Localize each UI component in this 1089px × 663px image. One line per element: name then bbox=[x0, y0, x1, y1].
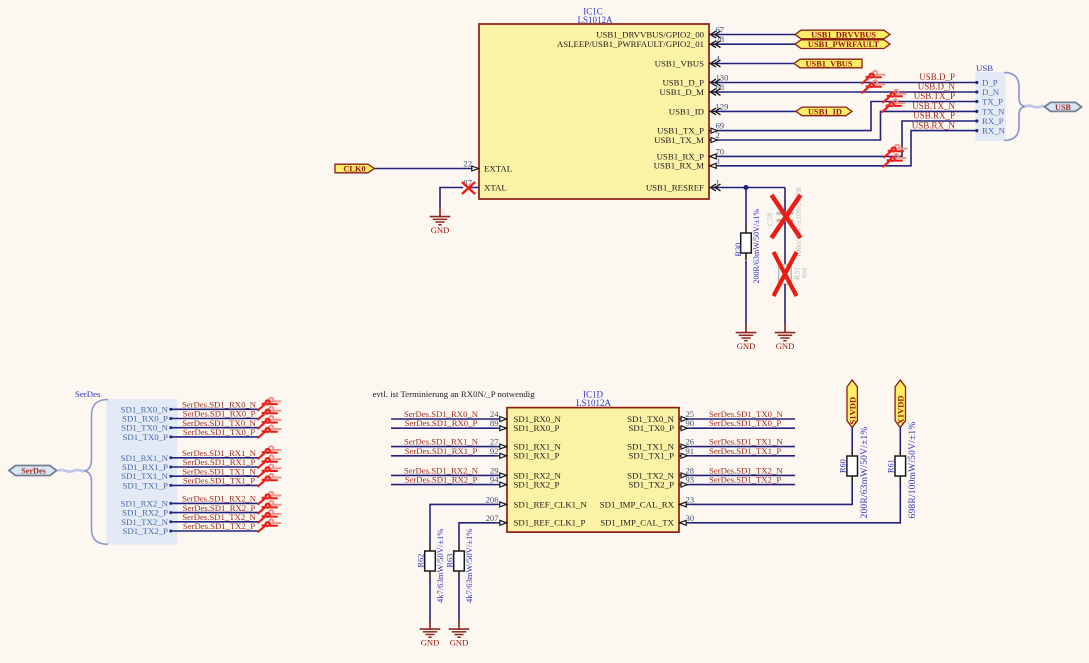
wire S1VDD to R60 bbox=[851, 428, 853, 449]
svg-text:4k7/63mW/50V/±1%: 4k7/63mW/50V/±1% bbox=[435, 529, 445, 603]
wire net SerDes.SD1_RX0_N into pin 24 bbox=[391, 418, 495, 420]
wire R62 to GND bbox=[429, 579, 431, 621]
length-match marker on USB.RX_P bbox=[884, 145, 908, 158]
wire net SerDes.SD1_RX0_N bbox=[171, 408, 260, 410]
svg-text:CLK0: CLK0 bbox=[343, 165, 365, 174]
svg-text:ASLEEP/USB1_PWRFAULT/GPIO2_01: ASLEEP/USB1_PWRFAULT/GPIO2_01 bbox=[557, 39, 704, 49]
IC1C pin 28 ASLEEP/USB1_PWRFAULT/GPIO2_01 bbox=[709, 34, 724, 47]
svg-text:R62: R62 bbox=[416, 554, 425, 568]
IC1D pin 206 SD1_REF_CLK1_N bbox=[486, 494, 507, 507]
wire R30 to GND bbox=[745, 261, 747, 324]
svg-text:4: 4 bbox=[716, 54, 721, 64]
length-match marker on SerDes.SD1_RX2_N bbox=[258, 492, 282, 505]
bus USB member RX_P bbox=[975, 119, 978, 122]
wire pin to net label USB1_ID bbox=[721, 110, 796, 112]
length-match marker on SerDes.SD1_RX2_P bbox=[258, 501, 282, 514]
svg-text:USB1_RX_M: USB1_RX_M bbox=[654, 161, 705, 171]
resistor R62 bbox=[425, 544, 436, 579]
svg-text:LS1012A: LS1012A bbox=[577, 15, 613, 25]
svg-text:RX_N: RX_N bbox=[982, 126, 1006, 136]
length-match marker on SerDes.SD1_RX0_P bbox=[258, 407, 282, 420]
bus SerDes brace bbox=[83, 400, 108, 545]
bus USB body bbox=[976, 72, 1006, 141]
IC1D pin 24 SD1_RX0_N bbox=[490, 409, 507, 422]
svg-text:XTAL: XTAL bbox=[484, 182, 507, 192]
IC1D pin 92 SD1_RX1_P bbox=[490, 446, 507, 459]
svg-text:SD1_TX0_P: SD1_TX0_P bbox=[629, 423, 675, 433]
IC1D pin 27 SD1_RX1_N bbox=[490, 437, 507, 450]
svg-text:USB1_D_M: USB1_D_M bbox=[660, 87, 705, 97]
svg-text:USB.TX_P: USB.TX_P bbox=[914, 91, 955, 101]
IC1D pin 207 SD1_REF_CLK1_P bbox=[486, 513, 507, 526]
length-match marker on USB.RX_N bbox=[883, 154, 907, 167]
svg-text:207: 207 bbox=[486, 513, 500, 523]
bus USB member RX_N bbox=[975, 129, 978, 132]
svg-text:28: 28 bbox=[716, 34, 725, 44]
svg-text:SerDes: SerDes bbox=[21, 467, 46, 476]
IC1D pin 90 SD1_TX0_P bbox=[679, 418, 694, 431]
svg-text:USB1_DRVVBUS/GPIO2_00: USB1_DRVVBUS/GPIO2_00 bbox=[596, 29, 704, 39]
wire net SerDes.SD1_TX2_N bbox=[171, 521, 260, 523]
ground symbol GND below R62 bbox=[420, 620, 441, 648]
IC1C pin 130 USB1_D_P bbox=[709, 73, 728, 86]
ground symbol GND below R30 bbox=[736, 323, 757, 351]
IC1D pin 26 SD1_TX1_N bbox=[679, 437, 695, 450]
wire R60 to IC1D pin bbox=[691, 484, 852, 505]
svg-text:R30: R30 bbox=[734, 243, 743, 257]
wire net SerDes.SD1_RX1_P into pin 92 bbox=[391, 455, 495, 457]
svg-text:3: 3 bbox=[716, 156, 720, 166]
wire R31 to GND bbox=[784, 284, 786, 324]
svg-text:USB1_RESREF: USB1_RESREF bbox=[646, 182, 704, 192]
wire net SerDes.SD1_TX0_P bbox=[171, 436, 260, 438]
wire junction down to resistor R30 bbox=[745, 188, 747, 226]
do-not-populate cross over C78 bbox=[772, 195, 801, 238]
svg-text:1: 1 bbox=[716, 178, 720, 188]
wire USB1_RESREF pin 1 to R30 and C78 bbox=[721, 187, 785, 189]
svg-text:SerDes.SD1_TX1_P: SerDes.SD1_TX1_P bbox=[709, 446, 781, 456]
net label USB1_DRVVBUS bbox=[795, 30, 890, 39]
svg-text:D_P: D_P bbox=[982, 78, 998, 88]
svg-text:SerDes: SerDes bbox=[75, 389, 101, 399]
wire net SerDes.SD1_TX0_N from pin 25 bbox=[691, 418, 795, 420]
net label USB1_VBUS bbox=[794, 59, 862, 68]
no-connect cross on XTAL pin bbox=[462, 182, 475, 194]
ground symbol GND below R31/C78 bbox=[775, 323, 796, 351]
length-match marker on SerDes.SD1_RX1_P bbox=[258, 455, 282, 468]
wire net SerDes.SD1_TX1_N from pin 26 bbox=[691, 446, 795, 448]
wire USB1_D_M to bus USB.D_N bbox=[721, 91, 977, 93]
capacitor C78 (not populated, grey) bbox=[777, 212, 794, 215]
svg-text:SD1_TX1_P: SD1_TX1_P bbox=[629, 451, 675, 461]
length-match marker on USB.TX_P bbox=[883, 90, 907, 103]
wire USB1_TX_M to bus USB.TX_N bbox=[721, 111, 977, 140]
svg-text:LS1012A: LS1012A bbox=[576, 398, 612, 408]
svg-text:D_N: D_N bbox=[982, 87, 1000, 97]
svg-text:SerDes.SD1_RX2_P: SerDes.SD1_RX2_P bbox=[405, 475, 478, 485]
svg-text:S1VDD: S1VDD bbox=[848, 397, 858, 425]
svg-text:X1VDD: X1VDD bbox=[896, 395, 906, 424]
wire pin to net label USB1_DRVVBUS bbox=[721, 34, 795, 36]
IC1D pin 30 SD1_IMP_CAL_TX bbox=[679, 513, 694, 526]
wire net SerDes.SD1_RX2_N into pin 29 bbox=[391, 474, 495, 476]
svg-text:SerDes.SD1_TX1_P: SerDes.SD1_TX1_P bbox=[183, 476, 255, 486]
svg-text:SerDes.SD1_TX2_P: SerDes.SD1_TX2_P bbox=[183, 521, 255, 531]
svg-text:USB1_PWRFAULT: USB1_PWRFAULT bbox=[808, 40, 880, 49]
wire net SerDes.SD1_TX2_N from pin 28 bbox=[691, 474, 795, 476]
IC1C pin 2 USB1_TX_M bbox=[709, 130, 721, 143]
svg-text:4k7/63mW/50V/±1%: 4k7/63mW/50V/±1% bbox=[464, 529, 474, 603]
length-match marker on SerDes.SD1_TX0_N bbox=[258, 416, 282, 429]
svg-text:R63: R63 bbox=[445, 554, 454, 568]
svg-text:130: 130 bbox=[716, 73, 729, 83]
wire net SerDes.SD1_TX1_N bbox=[171, 475, 260, 477]
IC1C pin 3 USB1_RX_M bbox=[709, 156, 721, 169]
net label USB1_PWRFAULT bbox=[795, 40, 890, 49]
wire down to capacitor C78 bbox=[784, 188, 786, 212]
length-match marker on SerDes.SD1_TX0_P bbox=[258, 425, 282, 438]
wire IC1D pin to R63 bbox=[459, 523, 495, 544]
svg-text:USB1_VBUS: USB1_VBUS bbox=[805, 59, 852, 68]
bus USB squiggle link bbox=[1025, 106, 1045, 108]
IC1C pin 69 USB1_TX_P bbox=[709, 121, 724, 134]
resistor R60 bbox=[847, 449, 858, 484]
length-match marker on SerDes.SD1_RX1_N bbox=[258, 446, 282, 459]
IC1C pin 87 XTAL bbox=[463, 178, 479, 188]
svg-text:SD1_TX1_P: SD1_TX1_P bbox=[123, 480, 169, 490]
svg-text:SD1_IMP_CAL_RX: SD1_IMP_CAL_RX bbox=[600, 499, 675, 509]
IC1C pin 22 EXTAL bbox=[463, 159, 479, 172]
length-match marker on SerDes.SD1_TX2_P bbox=[258, 519, 282, 532]
svg-text:SD1_TX2_P: SD1_TX2_P bbox=[629, 480, 675, 490]
svg-text:SD1_RX2_P: SD1_RX2_P bbox=[514, 480, 560, 490]
svg-text:SD1_REF_CLK1_P: SD1_REF_CLK1_P bbox=[514, 518, 586, 528]
bus SerDes body bbox=[107, 399, 178, 545]
svg-text:30: 30 bbox=[686, 513, 695, 523]
supply flag S1VDD bbox=[847, 380, 857, 428]
svg-text:SD1_IMP_CAL_TX: SD1_IMP_CAL_TX bbox=[600, 518, 674, 528]
wire R63 to GND bbox=[458, 579, 460, 621]
wire IC1D pin to R62 bbox=[430, 504, 495, 543]
net label USB1_ID bbox=[796, 107, 852, 116]
svg-text:129: 129 bbox=[716, 101, 729, 111]
IC1D pin 91 SD1_TX1_P bbox=[679, 446, 694, 459]
wire net SerDes.SD1_RX2_P into pin 94 bbox=[391, 484, 495, 486]
svg-text:EXTAL: EXTAL bbox=[484, 163, 512, 173]
svg-text:R61: R61 bbox=[887, 459, 896, 473]
wire net SerDes.SD1_RX0_P into pin 89 bbox=[391, 427, 495, 429]
svg-text:USB1_ID: USB1_ID bbox=[669, 106, 704, 116]
svg-text:SD1_RX1_P: SD1_RX1_P bbox=[514, 451, 560, 461]
length-match marker on SerDes.SD1_TX2_N bbox=[258, 510, 282, 523]
svg-text:C78: C78 bbox=[766, 213, 775, 226]
svg-text:SerDes.SD1_TX2_P: SerDes.SD1_TX2_P bbox=[709, 475, 781, 485]
wire net SerDes.SD1_TX1_P from pin 91 bbox=[691, 455, 795, 457]
do-not-populate cross over R31 bbox=[774, 252, 797, 296]
wire net SerDes.SD1_RX1_P bbox=[171, 466, 260, 468]
svg-text:22: 22 bbox=[463, 159, 472, 169]
bus USB member D_P bbox=[975, 81, 978, 84]
svg-text:USB.D_N: USB.D_N bbox=[918, 82, 956, 92]
wire net SerDes.SD1_RX1_N bbox=[171, 457, 260, 459]
IC U1 part D (IC1D LS1012A) body bbox=[507, 408, 679, 532]
bus USB member TX_P bbox=[975, 100, 978, 103]
supply flag X1VDD bbox=[895, 380, 905, 428]
IC1D pin 93 SD1_TX2_P bbox=[679, 475, 694, 488]
svg-text:200R/63mW/50V/±1%: 200R/63mW/50V/±1% bbox=[752, 209, 761, 284]
bus USB brace bbox=[1004, 73, 1027, 141]
bus SerDes squiggle link bbox=[58, 470, 85, 472]
IC1D pin 29 SD1_RX2_N bbox=[490, 465, 507, 478]
wire pin to net label USB1_PWRFAULT bbox=[721, 43, 795, 45]
junction node on RESREF net bbox=[744, 185, 749, 190]
IC1C pin 67 USB1_DRVVBUS/GPIO2_00 bbox=[709, 25, 725, 38]
svg-text:SerDes.SD1_TX0_P: SerDes.SD1_TX0_P bbox=[709, 418, 781, 428]
bus label USB hexagon bbox=[1045, 102, 1082, 111]
svg-text:USB1_VBUS: USB1_VBUS bbox=[655, 58, 704, 68]
wire net SerDes.SD1_TX1_P bbox=[171, 484, 260, 486]
svg-text:USB.D_P: USB.D_P bbox=[919, 72, 955, 82]
IC1C pin 68 USB1_D_M bbox=[709, 82, 724, 95]
bus label SerDes hexagon bbox=[9, 466, 57, 476]
IC1D pin 94 SD1_RX2_P bbox=[490, 475, 507, 488]
wire pin to net label USB1_VBUS bbox=[721, 63, 794, 65]
length-match marker on SerDes.SD1_TX1_P bbox=[258, 474, 282, 487]
svg-text:USB1_ID: USB1_ID bbox=[808, 107, 842, 116]
svg-text:SD1_REF_CLK1_N: SD1_REF_CLK1_N bbox=[514, 499, 588, 509]
IC1D pin 23 SD1_IMP_CAL_RX bbox=[679, 494, 694, 507]
wire net SerDes.SD1_TX2_P from pin 93 bbox=[691, 484, 795, 486]
svg-text:TX_P: TX_P bbox=[982, 97, 1003, 107]
svg-text:evtl. ist Terminierung an RX0N: evtl. ist Terminierung an RX0N/_P notwen… bbox=[373, 389, 536, 399]
svg-text:23: 23 bbox=[686, 494, 695, 504]
wire USB1_RX_M to bus USB.RX_N bbox=[721, 131, 977, 166]
svg-text:2: 2 bbox=[716, 130, 720, 140]
IC1D pin 89 SD1_RX0_P bbox=[490, 418, 507, 431]
svg-text:USB: USB bbox=[1055, 103, 1071, 112]
bus USB member D_N bbox=[975, 90, 978, 93]
net label CLK0 bbox=[335, 164, 375, 173]
length-match marker on USB.D_P bbox=[862, 71, 886, 84]
wire X1VDD to R61 bbox=[899, 428, 901, 449]
wire net SerDes.SD1_TX0_P from pin 90 bbox=[691, 427, 795, 429]
svg-text:SerDes.SD1_RX0_P: SerDes.SD1_RX0_P bbox=[405, 418, 478, 428]
IC1D pin 28 SD1_TX2_N bbox=[679, 465, 694, 478]
svg-text:68: 68 bbox=[716, 82, 725, 92]
svg-text:698R/100mW/50V/±1%: 698R/100mW/50V/±1% bbox=[908, 422, 918, 519]
wire R61 to IC1D pin bbox=[691, 484, 900, 523]
svg-text:TX_N: TX_N bbox=[982, 106, 1005, 116]
svg-text:SD1_RX0_P: SD1_RX0_P bbox=[514, 423, 560, 433]
svg-text:USB1_D_P: USB1_D_P bbox=[662, 77, 704, 87]
svg-text:SerDes.SD1_RX1_P: SerDes.SD1_RX1_P bbox=[405, 446, 478, 456]
wire net SerDes.SD1_RX2_N bbox=[171, 502, 260, 504]
IC1C pin 129 USB1_ID bbox=[709, 101, 728, 114]
wire net SerDes.SD1_TX2_P bbox=[171, 530, 260, 532]
wire net SerDes.SD1_RX2_P bbox=[171, 512, 260, 514]
op-amp: none; IC U1 (IC1C LS1012A) body bbox=[479, 24, 709, 199]
svg-text:206: 206 bbox=[486, 494, 500, 504]
ground symbol GND below R63 bbox=[449, 620, 470, 648]
wire XTAL pin 87 to GND bbox=[440, 188, 463, 208]
resistor R30 bbox=[741, 226, 752, 261]
length-match marker on SerDes.SD1_RX0_N bbox=[258, 398, 282, 411]
svg-text:200R/63mW/50V/±1%: 200R/63mW/50V/±1% bbox=[860, 427, 870, 519]
wire net SerDes.SD1_RX0_P bbox=[171, 418, 260, 420]
svg-text:USB1_DRVVBUS: USB1_DRVVBUS bbox=[811, 30, 876, 39]
resistor R31 (not populated, grey) bbox=[779, 265, 792, 285]
bus USB member TX_N bbox=[975, 110, 978, 113]
IC1D pin 25 SD1_TX0_N bbox=[679, 409, 694, 422]
wire USB1_TX_P to bus USB.TX_P bbox=[721, 102, 977, 131]
svg-text:USB.RX_N: USB.RX_N bbox=[912, 120, 956, 130]
svg-text:67: 67 bbox=[716, 25, 725, 35]
svg-text:USB.TX_N: USB.TX_N bbox=[912, 101, 955, 111]
wire USB1_RX_P to bus USB.RX_P bbox=[721, 121, 977, 156]
wire C78 to resistor R31 bbox=[784, 222, 786, 265]
svg-text:RX_P: RX_P bbox=[982, 116, 1004, 126]
wire USB1_D_P to bus USB.D_P bbox=[721, 82, 977, 84]
ground symbol GND below XTAL bbox=[430, 207, 451, 235]
IC1C pin 70 USB1_RX_P bbox=[709, 146, 724, 159]
length-match marker on USB.TX_N bbox=[882, 99, 906, 112]
wire CLK0 to EXTAL pin 22 bbox=[375, 168, 467, 170]
IC1C pin 1 USB1_RESREF bbox=[709, 178, 721, 191]
svg-text:USB: USB bbox=[976, 63, 993, 73]
IC1C pin 4 USB1_VBUS bbox=[709, 54, 721, 67]
resistor R63 bbox=[454, 544, 465, 579]
svg-text:tbd: tbd bbox=[800, 268, 809, 278]
resistor R61 bbox=[895, 449, 906, 484]
wire net SerDes.SD1_TX0_N bbox=[171, 427, 260, 429]
svg-text:USB1_TX_M: USB1_TX_M bbox=[654, 135, 704, 145]
svg-text:R60: R60 bbox=[839, 459, 848, 473]
length-match marker on USB.D_N bbox=[862, 80, 886, 93]
svg-text:SerDes.SD1_TX0_P: SerDes.SD1_TX0_P bbox=[183, 427, 255, 437]
length-match marker on SerDes.SD1_TX1_N bbox=[258, 465, 282, 478]
svg-text:SD1_TX0_P: SD1_TX0_P bbox=[123, 432, 169, 442]
svg-text:SD1_TX2_P: SD1_TX2_P bbox=[123, 526, 169, 536]
wire net SerDes.SD1_RX1_N into pin 27 bbox=[391, 446, 495, 448]
svg-text:USB.RX_P: USB.RX_P bbox=[913, 111, 955, 121]
